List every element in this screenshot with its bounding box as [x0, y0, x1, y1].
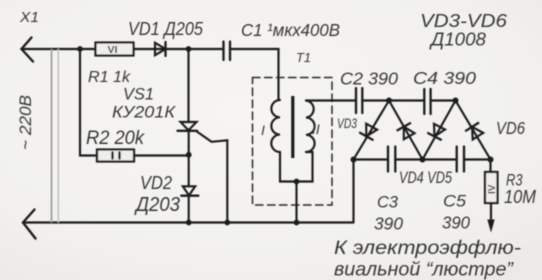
wire C2 to C4 — [362, 99, 424, 101]
svg-text:C1 ¹мкх400В: C1 ¹мкх400В — [241, 20, 340, 40]
node R1 tap — [77, 46, 83, 52]
node bottom gate — [224, 220, 230, 226]
svg-text:C3: C3 — [377, 193, 399, 212]
wire R3 to output arrow — [490, 203, 492, 221]
svg-text:390: 390 — [374, 214, 403, 234]
svg-text:C5: C5 — [443, 192, 467, 211]
resistor R2 — [97, 150, 134, 162]
svg-text:VD6: VD6 — [496, 118, 525, 138]
wire C4 to peak2 — [431, 99, 456, 101]
diode VD3 — [366, 124, 377, 137]
diode VD2 — [183, 186, 195, 195]
svg-text:R1 1k: R1 1k — [88, 69, 131, 86]
wire VS1 gate — [197, 131, 228, 222]
transformer T1 dashed box — [253, 78, 333, 206]
wire diagonal VD4 — [389, 101, 423, 160]
R2 power marks — [113, 153, 120, 159]
svg-text:VD4 VD5: VD4 VD5 — [399, 168, 452, 187]
wire up from main rail — [352, 160, 354, 223]
wire VS1 cathode down — [188, 131, 190, 187]
resistor R1 — [96, 43, 134, 56]
wire diagonal VD3 — [354, 101, 390, 160]
svg-text:VD3-VD6: VD3-VD6 — [420, 11, 508, 31]
output arrow — [487, 220, 494, 233]
node cathode/R2 — [186, 152, 192, 158]
svg-text:VD1 Д205: VD1 Д205 — [128, 19, 204, 39]
T1 winding I — [271, 100, 280, 152]
svg-text:VD3: VD3 — [337, 115, 357, 131]
svg-text:~ 220В: ~ 220В — [17, 95, 35, 150]
svg-text:T1: T1 — [296, 51, 311, 65]
capacitor C1 — [224, 42, 231, 61]
wire top rail — [22, 48, 224, 50]
svg-text:VI: VI — [108, 44, 118, 56]
diode VD6 — [472, 127, 483, 140]
node bottom VD2 — [186, 220, 192, 226]
svg-text:II: II — [312, 121, 320, 137]
connector X1 top prong arrow — [22, 38, 34, 62]
wire VD1 node down to thyristor — [187, 49, 189, 122]
wire winding I bottom — [280, 152, 313, 182]
diode VD1 — [155, 43, 166, 55]
svg-text:VS1: VS1 — [123, 86, 154, 104]
wire multiplier bottom rail — [354, 158, 389, 160]
wire T1 tap to bottom rail — [295, 182, 297, 223]
svg-text:Д203: Д203 — [134, 193, 180, 216]
diode VD5 — [434, 124, 445, 137]
node multiplier bottom-mid — [420, 157, 426, 163]
wire C1 to T1 primary — [230, 49, 279, 100]
diode VD4 — [404, 127, 415, 140]
svg-text:390: 390 — [442, 213, 470, 233]
wire crease line right — [57, 50, 59, 223]
node bottom T1 — [294, 220, 300, 226]
thyristor VS1 — [181, 122, 197, 130]
svg-text:R2 20k: R2 20k — [86, 128, 145, 149]
svg-text:X1: X1 — [19, 9, 39, 26]
svg-text:C4 390: C4 390 — [413, 68, 476, 88]
node T1 bottom tap — [294, 179, 300, 185]
T1 winding II — [306, 101, 315, 153]
capacitor C4 — [424, 89, 430, 114]
wire diagonal VD6 — [456, 101, 491, 160]
wire C3 to C5 — [395, 158, 456, 160]
svg-text:IV: IV — [487, 184, 498, 194]
wire crease line left — [51, 50, 53, 223]
svg-text:C2 390: C2 390 — [340, 69, 398, 89]
wire diagonal VD5 — [423, 101, 456, 160]
node peak2 — [453, 98, 459, 104]
svg-text:10M: 10M — [504, 187, 536, 207]
T1 core — [291, 96, 294, 158]
capacitor C3 — [388, 147, 395, 172]
svg-text:КУ201К: КУ201К — [112, 104, 176, 122]
svg-text:I: I — [261, 122, 265, 138]
wire bottom rail — [23, 221, 354, 223]
capacitor C5 — [457, 147, 464, 172]
svg-text:VD2: VD2 — [140, 173, 172, 193]
wire winding II to C2 — [306, 99, 356, 101]
svg-text:К электроэффлю-: К электроэффлю- — [334, 238, 521, 259]
resistor R3 — [485, 172, 498, 203]
node after VD1 — [186, 46, 192, 52]
connector X1 bottom prong arrow — [23, 210, 36, 239]
node multiplier bottom-left — [351, 157, 357, 163]
wire output down to R3 — [489, 160, 491, 173]
wire VD2 to bottom rail — [188, 196, 190, 223]
wire tap down to R2 — [80, 49, 97, 156]
node multiplier output — [488, 157, 494, 163]
node peak1 — [386, 98, 392, 104]
svg-text:Д1008: Д1008 — [429, 30, 486, 50]
svg-text:виальной “люстре”: виальной “люстре” — [334, 260, 515, 280]
wire R2 to cathode node — [134, 154, 189, 156]
wire C5 to output node — [464, 158, 491, 160]
capacitor C2 — [356, 88, 362, 113]
